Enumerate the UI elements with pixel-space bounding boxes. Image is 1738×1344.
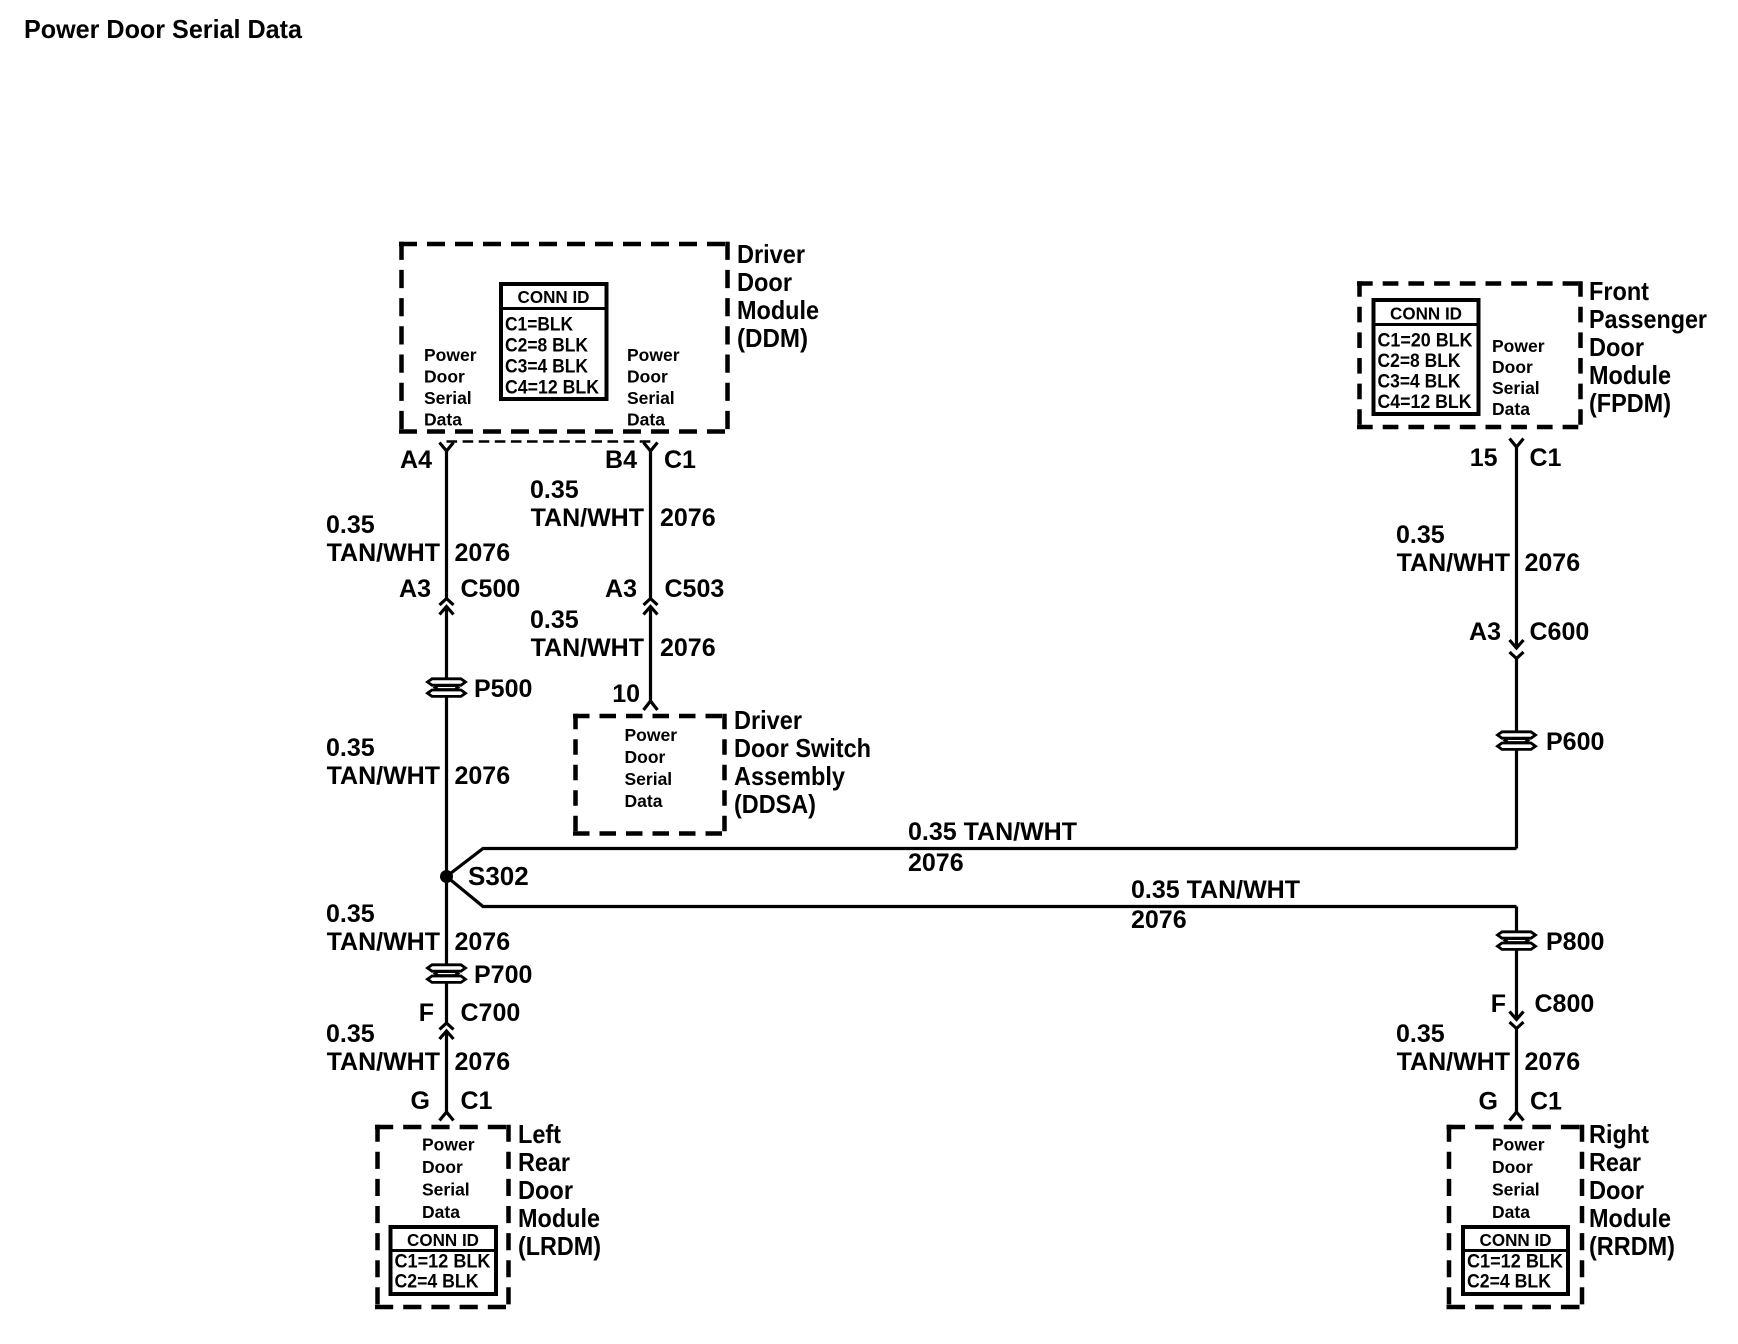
svg-text:Front: Front (1589, 276, 1649, 306)
grommet P600 (1498, 732, 1536, 750)
svg-text:TAN/WHT: TAN/WHT (327, 762, 440, 790)
svg-text:Serial: Serial (627, 388, 675, 408)
svg-text:10: 10 (612, 680, 640, 708)
svg-text:C1: C1 (1530, 444, 1562, 472)
svg-text:Data: Data (1492, 1202, 1530, 1222)
module DDM dashed box (399, 242, 730, 434)
wire label 0.35 TAN/WHT 2076 (326, 511, 510, 567)
svg-text:2076: 2076 (1525, 1048, 1581, 1076)
wire label 0.35 TAN/WHT 2076 (326, 734, 510, 790)
svg-text:C1: C1 (1530, 1088, 1562, 1116)
svg-text:(RRDM): (RRDM) (1589, 1231, 1675, 1261)
svg-text:C1=12 BLK: C1=12 BLK (395, 1252, 491, 1273)
svg-text:Door: Door (424, 367, 465, 387)
svg-text:Right: Right (1589, 1119, 1649, 1149)
svg-text:C503: C503 (665, 575, 725, 603)
svg-text:Door: Door (1589, 332, 1644, 362)
svg-text:Power: Power (625, 725, 678, 745)
svg-text:CONN ID: CONN ID (407, 1230, 479, 1250)
svg-text:Door: Door (737, 267, 792, 297)
connector C600 symbol (1510, 640, 1524, 659)
svg-text:C1: C1 (664, 446, 696, 474)
FPDM pin 15 connector fork (1510, 439, 1524, 448)
wire S302 lower branch diagonal (447, 877, 1517, 907)
svg-text:G: G (411, 1087, 430, 1115)
svg-text:P500: P500 (474, 675, 532, 703)
svg-text:0.35 TAN/WHT: 0.35 TAN/WHT (908, 818, 1077, 846)
svg-text:TAN/WHT: TAN/WHT (327, 928, 440, 956)
svg-text:0.35: 0.35 (326, 511, 375, 539)
svg-text:Serial: Serial (1492, 1180, 1540, 1200)
svg-text:0.35: 0.35 (326, 734, 375, 762)
DDM pin A4 internal label Power Door Serial Data (424, 345, 477, 430)
RRDM module name label (1589, 1119, 1675, 1261)
svg-text:Serial: Serial (422, 1180, 470, 1200)
wire C600 to P600 (1515, 659, 1518, 732)
svg-text:TAN/WHT: TAN/WHT (531, 504, 644, 532)
svg-text:Data: Data (424, 410, 462, 430)
svg-text:(DDSA): (DDSA) (734, 789, 816, 819)
wire DDM A4 to C500 (445, 451, 448, 599)
svg-text:2076: 2076 (1131, 906, 1187, 934)
svg-text:A4: A4 (400, 446, 432, 474)
svg-text:Assembly: Assembly (734, 761, 845, 791)
svg-text:G: G (1479, 1088, 1498, 1116)
module RRDM dashed box (1447, 1125, 1585, 1310)
svg-text:Door Switch: Door Switch (734, 733, 871, 763)
connector C800 symbol (1510, 1012, 1524, 1029)
wire label 0.35 TAN/WHT 2076 (326, 1020, 510, 1076)
svg-text:Power: Power (422, 1135, 475, 1155)
svg-text:(LRDM): (LRDM) (518, 1231, 601, 1261)
wire C500 to P500 (445, 607, 448, 679)
wire P800 to C800 (1515, 949, 1518, 1020)
svg-text:A3: A3 (399, 575, 431, 603)
svg-text:Power Door Serial Data: Power Door Serial Data (24, 14, 303, 44)
svg-text:P700: P700 (474, 961, 532, 989)
svg-text:15: 15 (1470, 444, 1498, 472)
svg-text:2076: 2076 (660, 634, 716, 662)
svg-text:0.35: 0.35 (1396, 521, 1445, 549)
svg-text:0.35: 0.35 (530, 606, 579, 634)
svg-text:Driver: Driver (734, 705, 802, 735)
DDM pin A4 connector fork (440, 443, 454, 452)
svg-text:Serial: Serial (424, 388, 472, 408)
svg-text:Door: Door (518, 1175, 573, 1205)
svg-text:Power: Power (424, 345, 477, 365)
svg-text:C4=12 BLK: C4=12 BLK (505, 378, 599, 399)
wire C503 to DDSA (649, 607, 652, 702)
DDM pin B4 internal label Power Door Serial Data (627, 345, 680, 430)
DDM connector face dashed line (447, 440, 651, 443)
svg-text:C2=8 BLK: C2=8 BLK (1378, 351, 1461, 372)
FPDM internal label Power Door Serial Data (1492, 336, 1545, 419)
wire P700 to C700 (445, 983, 448, 1023)
DDM CONN ID table (501, 284, 607, 399)
svg-text:Left: Left (518, 1119, 561, 1149)
svg-text:0.35: 0.35 (530, 476, 579, 504)
LRDM connector fork (440, 1112, 454, 1121)
svg-text:TAN/WHT: TAN/WHT (1397, 1048, 1510, 1076)
LRDM module name label (518, 1119, 601, 1261)
module DDSA dashed box (573, 714, 727, 836)
connector C503 symbol (644, 599, 658, 615)
wire label 0.35 TAN/WHT 2076 (1396, 521, 1580, 577)
svg-text:C4=12 BLK: C4=12 BLK (1378, 392, 1472, 413)
svg-text:CONN ID: CONN ID (518, 287, 590, 307)
svg-text:C500: C500 (461, 575, 521, 603)
wire label 0.35 TAN/WHT 2076 (326, 900, 510, 956)
svg-text:2076: 2076 (455, 928, 511, 956)
svg-text:C1=BLK: C1=BLK (505, 315, 573, 336)
wire DDM B4 to C503 (649, 451, 652, 599)
svg-text:Door: Door (625, 747, 666, 767)
RRDM CONN ID table (1463, 1227, 1568, 1294)
svg-text:A3: A3 (605, 575, 637, 603)
wire C700 to LRDM (445, 1031, 448, 1112)
svg-text:TAN/WHT: TAN/WHT (531, 634, 644, 662)
svg-text:C2=4 BLK: C2=4 BLK (1467, 1272, 1551, 1293)
connector C500 symbol (440, 599, 454, 615)
grommet P500 (428, 679, 466, 697)
wire lower corner to P800 (1515, 907, 1518, 932)
svg-text:C3=4 BLK: C3=4 BLK (505, 357, 588, 378)
svg-text:0.35: 0.35 (326, 1020, 375, 1048)
svg-text:Door: Door (1492, 1157, 1533, 1177)
svg-text:Serial: Serial (625, 769, 673, 789)
svg-text:Passenger: Passenger (1589, 304, 1707, 334)
svg-text:C2=8 BLK: C2=8 BLK (505, 336, 588, 357)
svg-text:2076: 2076 (455, 539, 511, 567)
svg-text:Door: Door (1492, 357, 1533, 377)
DDSA module name label (734, 705, 871, 819)
svg-text:Rear: Rear (1589, 1147, 1641, 1177)
svg-text:TAN/WHT: TAN/WHT (1397, 549, 1510, 577)
grommet P700 (428, 965, 466, 983)
wire label 0.35 TAN/WHT 2076 (530, 606, 716, 662)
svg-text:2076: 2076 (908, 849, 964, 877)
svg-text:TAN/WHT: TAN/WHT (327, 539, 440, 567)
svg-text:Door: Door (627, 367, 668, 387)
svg-text:Power: Power (1492, 1135, 1545, 1155)
RRDM connector fork (1510, 1112, 1524, 1121)
svg-text:Data: Data (422, 1202, 460, 1222)
DDSA connector fork (644, 701, 658, 710)
LRDM CONN ID table (391, 1227, 497, 1294)
wire S302 to P700 (445, 877, 448, 965)
module FPDM dashed box (1357, 281, 1583, 429)
svg-text:S302: S302 (468, 861, 529, 891)
svg-text:Module: Module (1589, 1203, 1671, 1233)
svg-text:F: F (419, 999, 434, 1027)
svg-text:2076: 2076 (660, 504, 716, 532)
FPDM CONN ID table (1374, 300, 1479, 414)
svg-text:Data: Data (1492, 399, 1530, 419)
svg-text:C600: C600 (1530, 618, 1590, 646)
svg-text:P600: P600 (1546, 728, 1604, 756)
svg-text:Serial: Serial (1492, 378, 1540, 398)
FPDM module name label (1589, 276, 1707, 418)
svg-text:A3: A3 (1469, 618, 1501, 646)
svg-text:Power: Power (1492, 336, 1545, 356)
wire C800 to RRDM (1515, 1029, 1518, 1113)
svg-text:C1: C1 (461, 1087, 493, 1115)
wire P600 to S302 upper corner (1515, 749, 1518, 849)
RRDM internal label Power Door Serial Data (1492, 1135, 1545, 1223)
svg-text:CONN ID: CONN ID (1480, 1230, 1552, 1250)
svg-text:CONN ID: CONN ID (1390, 304, 1462, 324)
svg-text:2076: 2076 (1525, 549, 1581, 577)
svg-text:C1=12 BLK: C1=12 BLK (1467, 1252, 1563, 1273)
svg-text:0.35: 0.35 (1396, 1020, 1445, 1048)
splice S302 node (440, 870, 453, 883)
svg-text:(DDM): (DDM) (737, 323, 808, 353)
svg-text:F: F (1491, 990, 1506, 1018)
DDSA internal label Power Door Serial Data (625, 725, 678, 811)
wire label 0.35 TAN/WHT 2076 (1396, 1020, 1580, 1076)
svg-text:0.35 TAN/WHT: 0.35 TAN/WHT (1131, 876, 1300, 904)
svg-text:C3=4 BLK: C3=4 BLK (1378, 372, 1461, 393)
svg-text:P800: P800 (1546, 928, 1604, 956)
svg-text:C700: C700 (461, 999, 521, 1027)
svg-text:Door: Door (422, 1157, 463, 1177)
DDM module name label (737, 239, 819, 353)
svg-text:Power: Power (627, 345, 680, 365)
svg-text:C1=20 BLK: C1=20 BLK (1378, 331, 1473, 352)
svg-text:(FPDM): (FPDM) (1589, 388, 1671, 418)
svg-text:Module: Module (737, 295, 819, 325)
svg-text:0.35: 0.35 (326, 900, 375, 928)
wire FPDM to C600 (1515, 447, 1518, 648)
svg-text:C800: C800 (1535, 990, 1595, 1018)
svg-text:Data: Data (625, 791, 663, 811)
svg-text:Door: Door (1589, 1175, 1644, 1205)
svg-text:Module: Module (518, 1203, 600, 1233)
svg-text:Driver: Driver (737, 239, 805, 269)
DDM pin B4 connector fork (644, 443, 658, 452)
wire P500 to S302 (445, 697, 448, 877)
wire label 0.35 TAN/WHT 2076 (530, 476, 716, 532)
svg-text:Rear: Rear (518, 1147, 570, 1177)
grommet P800 (1498, 932, 1536, 950)
connector C700 symbol (440, 1023, 454, 1039)
svg-text:TAN/WHT: TAN/WHT (327, 1048, 440, 1076)
svg-text:Module: Module (1589, 360, 1671, 390)
wire S302 upper branch diagonal (447, 849, 1517, 877)
svg-text:B4: B4 (605, 446, 637, 474)
LRDM internal label Power Door Serial Data (422, 1135, 475, 1223)
svg-text:C2=4 BLK: C2=4 BLK (395, 1272, 479, 1293)
svg-text:2076: 2076 (455, 762, 511, 790)
svg-text:Data: Data (627, 410, 665, 430)
module LRDM dashed box (375, 1125, 511, 1310)
svg-text:2076: 2076 (455, 1048, 511, 1076)
